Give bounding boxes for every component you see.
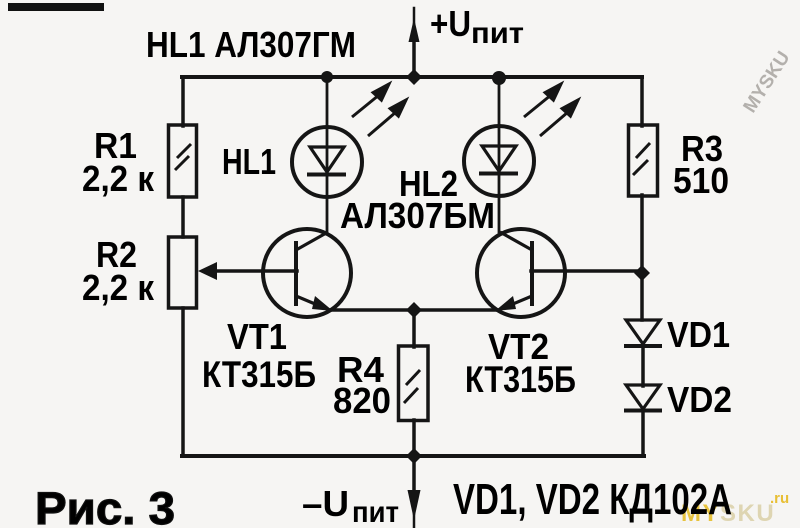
svg-text:пит: пит — [471, 17, 524, 50]
node HL1 top — [321, 71, 333, 83]
wire VT2 base to right rail — [531, 269, 642, 273]
arrow VT1 emitter — [312, 296, 333, 311]
svg-text:VD1, VD2 КД102А: VD1, VD2 КД102А — [453, 475, 732, 524]
node HL2 top — [492, 71, 506, 85]
diode VD2 — [624, 385, 662, 411]
wire VT2 emitter to node — [414, 308, 498, 312]
arrow VT2 emitter — [495, 296, 516, 311]
wire left rail upper — [181, 77, 185, 126]
svg-text:АЛ307БМ: АЛ307БМ — [340, 195, 495, 236]
svg-text:КТ315Б: КТ315Б — [465, 359, 576, 400]
wire VD1-VD2 link — [641, 347, 645, 386]
svg-text:820: 820 — [333, 380, 391, 421]
wire VT1 emitter to node — [330, 308, 414, 312]
svg-text:VD2: VD2 — [667, 379, 732, 420]
arrow -U — [408, 490, 421, 520]
wire R3 to VT2 base node — [640, 195, 644, 320]
svg-text:пит: пит — [352, 496, 399, 528]
svg-text:VT1: VT1 — [227, 316, 287, 357]
svg-text:+U: +U — [430, 3, 471, 44]
arrows HL2 light — [524, 84, 578, 136]
svg-text:КТ315Б: КТ315Б — [202, 354, 316, 395]
svg-text:–U: –U — [302, 483, 349, 524]
wire +U stem — [412, 41, 416, 77]
resistor R4 — [399, 346, 429, 421]
resistor R1 — [169, 125, 197, 197]
wire R1-R2 link — [181, 197, 185, 237]
svg-text:HL1 АЛ307ГМ: HL1 АЛ307ГМ — [146, 24, 356, 65]
svg-text:Рис. 3: Рис. 3 — [35, 483, 175, 528]
resistor R3 — [629, 125, 658, 196]
LED HL2 — [464, 126, 534, 196]
wire HL1 stem — [326, 77, 329, 233]
LED HL1 — [292, 127, 362, 197]
arrow +U — [409, 18, 420, 42]
transistor VT2 — [477, 229, 565, 317]
wire HL2 stem — [498, 77, 501, 232]
wire left rail lower — [181, 308, 185, 456]
arrows HL1 light — [352, 84, 406, 136]
wire VD2 to bottom rail — [641, 411, 645, 456]
wire bottom rail — [182, 454, 644, 458]
svg-text:VD1: VD1 — [667, 314, 730, 355]
diode VD1 — [624, 320, 662, 346]
node emitters/R4 (diamond) — [406, 302, 422, 318]
wire VT1 base to R2 — [214, 269, 297, 273]
wire top rail — [182, 75, 642, 79]
wire -U stem — [412, 456, 416, 494]
svg-text:.ru: .ru — [770, 490, 789, 507]
wire R4 to bottom rail — [412, 420, 416, 456]
node bottom center (diamond) — [406, 448, 422, 464]
transistor VT1 — [263, 229, 351, 317]
wire node to R4 — [412, 310, 416, 347]
arrow R2 wiper — [198, 262, 217, 280]
node VT2 base / right rail (diamond) — [634, 265, 650, 281]
resistor R2 (adjustable) — [169, 237, 197, 308]
node top center (diamond) — [406, 69, 422, 85]
svg-text:510: 510 — [673, 160, 729, 201]
svg-text:2,2 к: 2,2 к — [82, 158, 155, 199]
svg-text:2,2 к: 2,2 к — [82, 267, 155, 308]
svg-text:HL1: HL1 — [222, 141, 276, 182]
wire right rail upper — [640, 77, 644, 126]
watermark top-left bar — [8, 3, 104, 11]
